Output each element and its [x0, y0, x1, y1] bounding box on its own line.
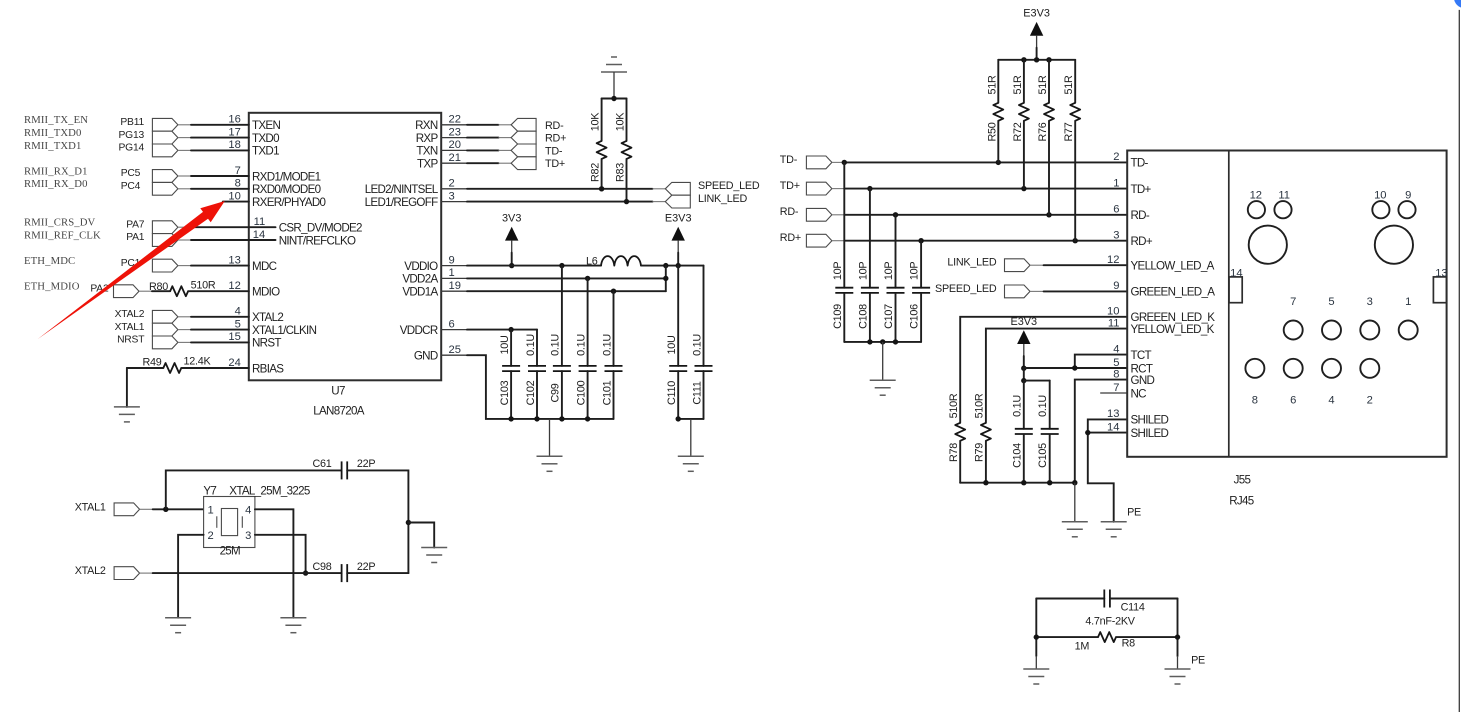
svg-text:6: 6 — [449, 318, 455, 330]
svg-text:C114: C114 — [1121, 601, 1145, 613]
svg-text:20: 20 — [449, 139, 461, 151]
wire U7 to port RD- — [467, 124, 511, 126]
svg-text:10P: 10P — [858, 262, 870, 281]
svg-text:TXEN: TXEN — [252, 119, 280, 132]
svg-text:13: 13 — [228, 254, 240, 266]
port flag PB11/PG13/PG14 — [152, 118, 178, 156]
svg-text:GND: GND — [1131, 374, 1155, 387]
svg-text:RXP: RXP — [416, 132, 439, 145]
svg-text:3V3: 3V3 — [502, 213, 521, 225]
svg-text:RMII_RX_D1: RMII_RX_D1 — [24, 165, 88, 177]
capacitor C114 4.7nF-2KV — [1036, 590, 1177, 628]
wire RD- to RJ45 — [832, 214, 1127, 216]
svg-text:ETH_MDIO: ETH_MDIO — [24, 281, 80, 293]
svg-text:RJ45: RJ45 — [1229, 494, 1254, 507]
svg-text:R78: R78 — [948, 443, 960, 462]
wire port to U7 — [178, 124, 249, 126]
capacitor C109 10P — [832, 162, 853, 342]
wire RJ45 pin8 GND — [1075, 380, 1127, 483]
wire port to U7 (pin line) — [178, 226, 276, 228]
svg-text:PA7: PA7 — [126, 219, 145, 230]
svg-text:15: 15 — [228, 331, 240, 343]
svg-text:PE: PE — [1127, 506, 1141, 518]
svg-text:2: 2 — [1113, 151, 1119, 163]
svg-text:10: 10 — [228, 190, 240, 202]
wire GND rail stem — [549, 419, 551, 456]
svg-text:4: 4 — [1113, 343, 1119, 355]
ground PE at R8 right — [1165, 669, 1191, 684]
U7 pin 2 LED2/NINTSEL — [365, 178, 467, 197]
svg-text:0.1U: 0.1U — [525, 334, 537, 356]
svg-text:R72: R72 — [1012, 122, 1024, 141]
svg-text:12.4K: 12.4K — [184, 355, 212, 367]
svg-text:GND: GND — [414, 350, 438, 363]
U7 pin 16 TXEN — [223, 114, 281, 133]
resistor R79 510R — [974, 393, 991, 483]
svg-text:C111: C111 — [691, 381, 703, 404]
junction VDD rail riser — [663, 263, 668, 268]
svg-text:PG13: PG13 — [118, 130, 144, 141]
sheet border line — [1458, 10, 1460, 712]
wire U7 pin6 VDDCR net — [467, 329, 537, 331]
svg-text:510R: 510R — [191, 280, 216, 292]
svg-text:0.1U: 0.1U — [575, 334, 587, 356]
svg-text:TXD0: TXD0 — [252, 132, 279, 145]
connector J55 RJ45 body — [1127, 151, 1446, 457]
junction C110 rail — [676, 416, 681, 421]
svg-text:MDC: MDC — [252, 260, 277, 273]
svg-text:C108: C108 — [858, 304, 870, 329]
junction rail C104 — [1021, 480, 1026, 485]
svg-text:RD+: RD+ — [1131, 235, 1153, 248]
junction TD+ cap tap — [867, 186, 872, 191]
svg-text:RXER/PHYAD0: RXER/PHYAD0 — [252, 196, 326, 209]
wire RJ45 pin13 SHILED — [1088, 419, 1127, 432]
svg-text:21: 21 — [449, 152, 461, 164]
resistor R77 51R — [1063, 60, 1080, 241]
svg-text:R82: R82 — [590, 163, 602, 182]
wire RJ45 pin4 TCT — [1075, 355, 1127, 368]
U7 pin 7 RXD1/MODE1 — [223, 165, 321, 184]
svg-text:7: 7 — [1290, 296, 1296, 308]
svg-text:XTAL1: XTAL1 — [75, 501, 106, 513]
wire rail stem to ground — [690, 419, 692, 456]
svg-text:4: 4 — [235, 306, 241, 318]
wire port to U7 — [178, 175, 249, 177]
svg-text:1: 1 — [208, 504, 214, 516]
svg-text:C101: C101 — [601, 380, 613, 405]
svg-text:RMII_TXD0: RMII_TXD0 — [24, 127, 81, 139]
J55 large hole right — [1375, 226, 1413, 264]
junction rail C105 — [1047, 480, 1052, 485]
ground (inverted) above R82/R83 — [601, 57, 627, 99]
capacitor C108 10P — [858, 189, 879, 342]
svg-text:9: 9 — [1113, 280, 1119, 292]
svg-text:24: 24 — [228, 357, 240, 369]
ground at Y7 pin2 — [165, 618, 191, 633]
svg-text:1: 1 — [449, 267, 455, 279]
capacitor C104 0.1U — [1011, 381, 1033, 483]
capacitor C61 22P — [312, 458, 375, 479]
wire XTAL/NRST port to U7 — [178, 329, 249, 331]
junction RD- resistor tap — [1046, 212, 1051, 217]
svg-text:YELLOW_LED_A: YELLOW_LED_A — [1131, 260, 1215, 273]
J55 contact 1 — [1399, 296, 1418, 339]
wire LINK_LED to RJ45 pin12 — [1030, 264, 1127, 266]
junction C100 tap — [585, 276, 590, 281]
port flag TD- — [806, 156, 832, 169]
wire R49 to ground — [126, 368, 128, 407]
J55 pin 9 GREEEN_LED_A — [1113, 280, 1215, 299]
svg-text:8: 8 — [1252, 394, 1258, 406]
wire right leg stem — [1177, 656, 1179, 669]
svg-text:51R: 51R — [986, 75, 998, 95]
svg-text:C104: C104 — [1011, 443, 1023, 468]
svg-text:1: 1 — [1405, 296, 1411, 308]
svg-text:25M: 25M — [220, 545, 240, 558]
U7 pin 18 TXD1 — [223, 139, 279, 158]
junction TD- cap tap — [842, 160, 847, 165]
svg-text:C109: C109 — [832, 304, 844, 329]
ground at R8 left — [1023, 669, 1049, 684]
J55 LED hole 12 — [1248, 189, 1265, 218]
capacitor C99 0.1U — [550, 266, 571, 419]
svg-text:6: 6 — [1113, 204, 1119, 216]
wire Y7 pin3 to XTAL2 net — [255, 535, 306, 573]
capacitor C101 0.1U — [601, 291, 622, 419]
junction C103 tap — [508, 327, 513, 332]
svg-text:4: 4 — [1328, 394, 1334, 406]
junction TD- resistor tap — [996, 160, 1001, 165]
svg-text:10U: 10U — [499, 335, 511, 354]
ground at 10P caps — [870, 380, 896, 395]
svg-text:0.1U: 0.1U — [691, 334, 703, 356]
wire port to U7 (pin line) — [178, 239, 276, 241]
port flag TD+ — [806, 182, 832, 195]
ground at R49 — [114, 407, 140, 422]
svg-text:PC5: PC5 — [121, 168, 141, 179]
junction GND rail — [508, 416, 513, 421]
U7 pin 25 GND — [414, 344, 467, 363]
svg-text:RD-: RD- — [1131, 209, 1150, 222]
svg-text:23: 23 — [449, 126, 461, 138]
svg-text:GREEEN_LED_A: GREEEN_LED_A — [1131, 286, 1216, 299]
wire C61 to ground riser — [347, 470, 408, 573]
junction SHILED pins — [1085, 430, 1090, 435]
svg-text:17: 17 — [228, 126, 240, 138]
U7 pin 9 VDDIO — [404, 254, 467, 273]
J55 shield tab 13 — [1433, 268, 1447, 303]
wire Y7 pin4 to ground — [255, 509, 294, 617]
svg-text:22: 22 — [449, 114, 461, 126]
svg-text:2: 2 — [208, 530, 214, 542]
svg-text:10K: 10K — [590, 112, 602, 132]
J55 pin 8 GND — [1113, 368, 1154, 387]
J55 pin 12 YELLOW_LED_A — [1107, 254, 1215, 273]
svg-text:VDD1A: VDD1A — [402, 286, 438, 299]
junction R82 / pin2 net — [599, 186, 604, 191]
J55 pin 13 SHILED — [1107, 408, 1168, 427]
wire U7 pin3 to LINK_LED port — [467, 201, 665, 203]
U7 pin 20 TXN — [416, 139, 467, 158]
svg-text:7: 7 — [235, 165, 241, 177]
svg-text:14: 14 — [1230, 268, 1242, 280]
svg-text:14: 14 — [253, 229, 265, 241]
RJ45 pin7 NC stub — [1100, 392, 1127, 394]
svg-text:11: 11 — [1278, 189, 1290, 201]
svg-text:L6: L6 — [586, 255, 598, 267]
capacitor C111 0.1U — [691, 266, 712, 419]
junction GND rail — [585, 416, 590, 421]
svg-text:SHILED: SHILED — [1131, 427, 1169, 440]
svg-text:VDDCR: VDDCR — [400, 324, 438, 337]
svg-text:10P: 10P — [909, 262, 921, 281]
port flag XTAL2/XTAL1/NRST — [152, 310, 178, 348]
resistor R78 510R — [948, 393, 965, 483]
J55 pin 6 RD- — [1113, 204, 1150, 223]
svg-text:TXD1: TXD1 — [252, 145, 279, 158]
svg-text:TD+: TD+ — [545, 158, 565, 170]
wire U7 pin9 VDDIO net — [467, 265, 601, 267]
svg-text:SPEED_LED: SPEED_LED — [698, 180, 760, 192]
J55 LED hole 11 — [1274, 189, 1291, 218]
svg-text:5: 5 — [235, 318, 241, 330]
svg-text:14: 14 — [1107, 421, 1119, 433]
svg-text:R76: R76 — [1037, 122, 1049, 141]
J55 contact 3 — [1360, 296, 1379, 339]
J55 contact 4 — [1322, 359, 1341, 407]
J55 pin 5 RCT — [1113, 357, 1153, 376]
port flag LINK_LED — [1005, 259, 1031, 272]
J55 pin 14 SHILED — [1107, 421, 1168, 440]
wire rail stem to ground — [1074, 483, 1076, 522]
svg-text:C102: C102 — [525, 380, 537, 405]
J55 pin 10 GREEEN_LED_K — [1107, 306, 1215, 325]
svg-text:C110: C110 — [666, 381, 678, 405]
J55 contact 6 — [1284, 359, 1303, 407]
junction at ground bar — [611, 96, 616, 101]
svg-text:RXD1/MODE1: RXD1/MODE1 — [252, 170, 321, 183]
junction E3V3 / C110 — [676, 263, 681, 268]
svg-text:SPEED_LED: SPEED_LED — [935, 283, 997, 295]
junction XTAL1 / C61 branch — [163, 507, 168, 512]
svg-text:3: 3 — [1367, 296, 1373, 308]
junction right leg — [1175, 634, 1180, 639]
svg-text:R79: R79 — [974, 443, 986, 462]
port flag PC1 — [152, 259, 178, 272]
U7 pin 22 RXN — [415, 114, 467, 133]
U7 pin 3 LED1/REGOFF — [365, 190, 467, 209]
svg-text:22P: 22P — [357, 458, 376, 470]
svg-text:J55: J55 — [1234, 474, 1251, 487]
wire C114/R8 right leg — [1177, 599, 1179, 657]
inductor L6 — [586, 255, 641, 267]
svg-text:13: 13 — [1107, 408, 1119, 420]
junction rail C108 — [867, 339, 872, 344]
capacitor C107 10P — [883, 215, 904, 342]
svg-text:PE: PE — [1191, 654, 1205, 666]
U7 pin 21 TXP — [417, 152, 467, 171]
svg-text:RBIAS: RBIAS — [252, 362, 284, 375]
junction bus R72 — [1021, 57, 1026, 62]
svg-text:VDDIO: VDDIO — [404, 260, 438, 273]
svg-text:C99: C99 — [550, 383, 562, 402]
wire XTAL2 port to C98 — [140, 572, 342, 574]
wire XTAL1 port to Y7 pin1 — [140, 508, 204, 510]
svg-text:C103: C103 — [499, 380, 511, 405]
junction E3V3 / RCT — [1021, 366, 1026, 371]
junction 3V3 / VDDIO net — [509, 263, 514, 268]
svg-text:NRST: NRST — [117, 335, 145, 346]
svg-text:9: 9 — [1405, 189, 1411, 201]
J55 pin 4 TCT — [1113, 343, 1151, 362]
power symbol E3V3 at L6 — [665, 213, 692, 266]
port flag SPEED_LED — [1005, 285, 1031, 298]
svg-text:CSR_DV/MODE2: CSR_DV/MODE2 — [279, 222, 362, 235]
svg-text:XTAL2: XTAL2 — [115, 309, 145, 320]
crystal Y7 XTAL_25M_3225 body — [204, 497, 255, 548]
svg-text:1M: 1M — [1075, 640, 1090, 652]
wire TD- to RJ45 — [832, 161, 1127, 163]
junction rail GND stem — [1072, 480, 1077, 485]
junction GND rail — [559, 416, 564, 421]
svg-text:RMII_CRS_DV: RMII_CRS_DV — [24, 217, 96, 229]
wire left leg stem — [1035, 656, 1037, 669]
svg-text:18: 18 — [228, 139, 240, 151]
junction R83 / pin3 net — [624, 199, 629, 204]
junction ground branch — [406, 520, 411, 525]
svg-text:12: 12 — [1250, 189, 1262, 201]
U7 pin 24 RBIAS — [223, 357, 284, 376]
svg-text:XTAL1/CLKIN: XTAL1/CLKIN — [252, 324, 317, 337]
svg-text:PC4: PC4 — [121, 181, 141, 192]
capacitor C100 0.1U — [575, 278, 596, 419]
svg-text:1: 1 — [1113, 177, 1119, 189]
svg-text:TD-: TD- — [545, 145, 563, 157]
svg-text:PB11: PB11 — [120, 117, 144, 128]
resistor R76 51R — [1037, 60, 1054, 215]
wire TD+ to RJ45 — [832, 188, 1127, 190]
wire port to U7 — [178, 149, 249, 151]
power symbol E3V3 at RCT — [1010, 316, 1037, 368]
capacitor C110 10U — [666, 266, 687, 419]
wire 51R common bus — [998, 59, 1075, 61]
svg-text:PA1: PA1 — [126, 232, 145, 243]
capacitor C98 22P — [312, 561, 375, 582]
ground at RJ45 GND — [1062, 522, 1088, 537]
resistor R50 51R — [986, 60, 1003, 163]
wire U7 to port TD+ — [467, 162, 511, 164]
wire E3V3 stem to C104 — [1023, 368, 1025, 380]
svg-text:TD-: TD- — [1131, 157, 1149, 170]
svg-text:5: 5 — [1113, 357, 1119, 369]
J55 large hole left — [1249, 226, 1287, 264]
svg-text:510R: 510R — [948, 393, 960, 418]
junction rail stem — [880, 339, 885, 344]
U7 pin 8 RXD0/MODE0 — [223, 178, 321, 197]
wire RD+ to RJ45 — [832, 240, 1127, 242]
svg-text:8: 8 — [235, 178, 241, 190]
svg-text:11: 11 — [254, 216, 266, 228]
U7 pin 11 CSR_DV/MODE2 — [223, 216, 362, 235]
wire SPEED_LED to RJ45 pin9 — [1030, 290, 1127, 292]
J55 contact 8 — [1245, 359, 1264, 407]
U7 pin 4 XTAL2 — [223, 306, 284, 325]
svg-text:NINT/REFCLKO: NINT/REFCLKO — [279, 234, 356, 247]
svg-text:R50: R50 — [986, 122, 998, 141]
wire XTAL1 up to C61 — [166, 470, 342, 509]
svg-text:51R: 51R — [1012, 75, 1024, 95]
svg-text:LED2/NINTSEL: LED2/NINTSEL — [365, 183, 439, 196]
wire rail stem — [882, 342, 884, 380]
svg-text:51R: 51R — [1063, 75, 1075, 95]
svg-text:0.1U: 0.1U — [550, 334, 562, 356]
svg-text:YELLOW_LED_K: YELLOW_LED_K — [1131, 323, 1215, 336]
svg-text:E3V3: E3V3 — [665, 213, 692, 225]
power symbol E3V3 above 51R resistors — [1023, 8, 1050, 60]
svg-text:U7: U7 — [331, 385, 345, 398]
U7 pin 10 RXER/PHYAD0 — [223, 190, 326, 209]
port flag XTAL2 — [114, 567, 140, 580]
svg-text:13: 13 — [1435, 268, 1447, 280]
svg-text:TD+: TD+ — [780, 180, 800, 192]
svg-text:25: 25 — [449, 344, 461, 356]
svg-text:XTAL2: XTAL2 — [75, 565, 106, 577]
J55 pin 2 TD- — [1113, 151, 1148, 170]
svg-text:R83: R83 — [615, 163, 627, 182]
junction Y7 pin3 / XTAL2 net — [303, 570, 308, 575]
svg-text:C105: C105 — [1037, 443, 1049, 468]
wire RJ45 pin5 RCT — [1024, 367, 1127, 369]
U7 pin 6 VDDCR — [400, 318, 467, 337]
U7 pin 12 MDIO — [223, 280, 280, 299]
junction RD+ resistor tap — [1073, 238, 1078, 243]
junction rail R79 — [983, 480, 988, 485]
svg-text:RMII_TX_EN: RMII_TX_EN — [24, 114, 88, 126]
wire L6 to E3V3 node — [641, 265, 704, 267]
wire U7 pin2 to SPEED_LED port — [467, 188, 665, 190]
svg-text:MDIO: MDIO — [252, 286, 280, 299]
junction bus E3V3 — [1034, 57, 1039, 62]
junction left leg — [1034, 634, 1039, 639]
svg-text:19: 19 — [449, 280, 461, 292]
J55 contact 7 — [1284, 296, 1303, 339]
svg-text:R8: R8 — [1122, 638, 1136, 650]
wire RJ45 pin11 to R79 — [986, 329, 1127, 423]
svg-text:PG14: PG14 — [118, 143, 144, 154]
wire port to U7 — [178, 188, 249, 190]
ground at C61/C98 — [421, 548, 447, 563]
svg-text:4: 4 — [245, 504, 251, 516]
wire branch to C105 — [1024, 380, 1050, 382]
junction TD+ resistor tap — [1021, 186, 1026, 191]
resistor R49 12.4K — [127, 355, 249, 373]
svg-text:TD-: TD- — [780, 154, 798, 166]
svg-text:RMII_REF_CLK: RMII_REF_CLK — [24, 229, 101, 241]
U7 pin 5 XTAL1/CLKIN — [223, 318, 317, 337]
J55 shield tab 14 — [1229, 268, 1243, 303]
junction RD+ cap tap — [918, 238, 923, 243]
port flag RD-/RD+/TD-/TD+ — [511, 118, 536, 169]
U7 pin 1 VDD2A — [402, 267, 467, 286]
svg-text:10P: 10P — [883, 262, 895, 281]
red annotation arrow — [38, 201, 225, 339]
ground at C99 rail — [537, 456, 563, 471]
J55 pin 11 YELLOW_LED_K — [1108, 317, 1215, 336]
svg-text:E3V3: E3V3 — [1023, 8, 1050, 20]
resistor R8 1M — [1036, 632, 1177, 652]
ground at Y7 pin4 — [280, 618, 306, 633]
